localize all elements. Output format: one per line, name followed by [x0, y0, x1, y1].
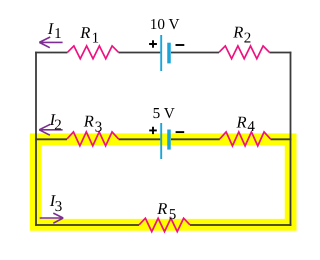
svg-text:5: 5: [169, 207, 177, 223]
current arrow I1: [39, 37, 62, 48]
svg-text:3: 3: [95, 119, 103, 135]
wire: left vertical: [35, 52, 37, 226]
svg-text:R: R: [232, 23, 243, 42]
battery 5 V : tall plate: [160, 123, 162, 159]
current arrow I2: [39, 124, 62, 135]
svg-text:3: 3: [55, 199, 63, 215]
svg-text:1: 1: [54, 26, 62, 42]
svg-text:2: 2: [244, 30, 252, 46]
wire: right vertical: [290, 52, 292, 226]
resistor R2: [219, 46, 269, 59]
battery 10 V : tall plate: [160, 35, 162, 71]
minus sign (10 V): [176, 44, 185, 46]
svg-text:R: R: [79, 23, 90, 42]
resistor R4: [220, 132, 271, 146]
svg-text:10 V: 10 V: [150, 16, 180, 33]
current arrow I3: [40, 213, 64, 223]
highlighted loop (yellow): [36, 139, 291, 225]
resistor R1: [68, 46, 119, 59]
battery 10 V : short plate: [167, 43, 171, 64]
resistor R3: [67, 132, 119, 146]
svg-text:5 V: 5 V: [153, 105, 175, 122]
svg-text:R: R: [236, 112, 247, 131]
svg-text:R: R: [83, 112, 94, 131]
resistor R5: [139, 218, 190, 231]
wire: top row segments: [35, 52, 291, 54]
plus sign (10 V): [149, 40, 157, 47]
plus sign (5 V): [149, 127, 157, 134]
svg-text:R: R: [156, 199, 167, 218]
svg-text:1: 1: [92, 31, 100, 47]
wire: middle row segments: [35, 138, 291, 140]
wire: bottom row segments: [35, 224, 291, 226]
svg-text:4: 4: [247, 119, 255, 135]
minus sign (5 V): [176, 131, 185, 133]
svg-text:2: 2: [54, 117, 62, 133]
battery 5 V : short plate: [167, 130, 171, 150]
